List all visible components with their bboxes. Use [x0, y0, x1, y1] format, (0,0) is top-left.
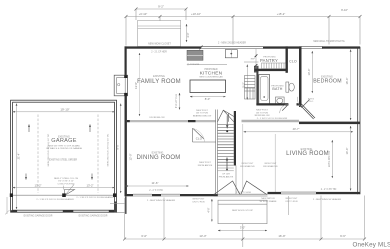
dimension 4'-0" right of bay	[186, 24, 188, 42]
svg-text:EXTG WD FLR: EXTG WD FLR	[328, 151, 331, 168]
garage interior dim 19'-10"	[13, 111, 115, 113]
stairs	[216, 110, 236, 195]
svg-text:UP 14R: UP 14R	[222, 174, 230, 176]
svg-text:PANTRY: PANTRY	[260, 58, 278, 63]
garage right wall lower dark segment	[114, 202, 117, 213]
wall: right exterior	[358, 47, 360, 194]
svg-text:EXISTING: EXISTING	[153, 75, 165, 78]
dim 40'-7" below divider	[244, 131, 354, 133]
svg-text:21'-4": 21'-4"	[16, 153, 20, 160]
door jamb posts	[214, 194, 218, 196]
svg-text:2 - 2' X 3' HD: 2 - 2' X 3' HD	[149, 190, 163, 192]
dim 16'-4" bedroom height	[350, 50, 352, 121]
pantry depth dim	[255, 49, 257, 71]
svg-text:EXISTING GARAGE DOOR: EXISTING GARAGE DOOR	[79, 214, 108, 217]
entry door header	[214, 194, 268, 196]
svg-text:3R/3W BELOW: 3R/3W BELOW	[254, 115, 270, 117]
kitchen dim 5'-2"	[246, 65, 248, 100]
svg-text:CLO: CLO	[196, 136, 203, 140]
bedroom dim 10'-4"	[311, 51, 313, 93]
svg-text:2 - 1 3/4 X 9 1/4 LVL FLUSH HE: 2 - 1 3/4 X 9 1/4 LVL FLUSH HEADER	[36, 198, 74, 201]
svg-text:NEW POST: NEW POST	[286, 198, 298, 200]
svg-text:NEW 4" STEEL COL ON: NEW 4" STEEL COL ON	[54, 178, 78, 180]
svg-text:NEW POST: NEW POST	[242, 163, 254, 165]
svg-text:4'-0": 4'-0"	[206, 207, 210, 212]
svg-text:+15'-2": +15'-2"	[277, 12, 285, 16]
svg-text:LIVING ROOM: LIVING ROOM	[286, 151, 329, 157]
svg-text:19'-10": 19'-10"	[60, 107, 69, 111]
bottom dimension line	[123, 196, 366, 248]
svg-text:CONC FOOTING: CONC FOOTING	[57, 183, 74, 185]
svg-text:DN TO FDN: DN TO FDN	[193, 201, 205, 203]
fireplace	[114, 75, 127, 96]
svg-text:40'-7": 40'-7"	[293, 127, 300, 131]
wall: bedroom left	[299, 46, 302, 107]
svg-text:10'-4": 10'-4"	[307, 69, 311, 76]
lower risers	[218, 168, 234, 171]
angled hall wall	[300, 104, 315, 119]
entry double door swings	[214, 181, 267, 195]
svg-text:13'-6": 13'-6"	[134, 82, 138, 89]
dimension line 9'-2" (top)	[135, 8, 188, 21]
svg-text:FROM ABOVE: FROM ABOVE	[219, 175, 234, 178]
svg-text:2 - NEW WINDOW HEADER: 2 - NEW WINDOW HEADER	[313, 198, 342, 201]
svg-text:2 - 1 3/4 X 14 LVL FLUSH HDR: 2 - 1 3/4 X 14 LVL FLUSH HDR	[257, 118, 288, 120]
svg-text:13'-3": 13'-3"	[199, 234, 206, 238]
dim 9'-0" between garage and house wall	[120, 104, 122, 194]
svg-text:FAMILY ROOM: FAMILY ROOM	[137, 79, 181, 85]
svg-text:DN 3R BELOW: DN 3R BELOW	[149, 117, 165, 119]
svg-text:11'-6": 11'-6"	[152, 181, 159, 185]
svg-text:12'-0": 12'-0"	[129, 154, 133, 161]
left exterior tick	[5, 197, 10, 215]
garage interior height dim	[16, 104, 18, 210]
svg-text:BEDROOM: BEDROOM	[313, 79, 342, 85]
kitchen sink	[225, 50, 237, 58]
wall: left exterior below fireplace down to dining front	[125, 96, 127, 196]
wall: top exterior (family room to bedroom)	[125, 46, 361, 50]
stoop	[218, 200, 267, 224]
wall: clo left	[286, 46, 288, 72]
stair treads	[218, 125, 234, 166]
svg-text:EXISTING STEEL GIRDER: EXISTING STEEL GIRDER	[49, 159, 77, 161]
closet by stairs	[193, 128, 216, 142]
svg-text:16'-4": 16'-4"	[345, 78, 349, 85]
stair right wall	[234, 111, 236, 166]
kitchen range cabinet	[187, 50, 203, 60]
wall: living room front	[268, 192, 361, 194]
svg-text:DINING ROOM: DINING ROOM	[136, 155, 180, 161]
island dim 8'-0"	[190, 96, 226, 98]
svg-text:4'-0": 4'-0"	[186, 32, 190, 37]
svg-text:9'-10": 9'-10"	[341, 8, 348, 12]
stair winders	[218, 110, 234, 122]
header: hall/living (2-1 3/4x14 LVL)	[242, 120, 300, 122]
wall: bath left	[256, 71, 258, 105]
bath sink	[276, 97, 285, 105]
wall: dining front	[125, 194, 214, 196]
svg-text:14'-4": 14'-4"	[345, 148, 349, 155]
svg-text:2 - NEW 2X10 GI HEADER: 2 - NEW 2X10 GI HEADER	[218, 42, 246, 45]
svg-text:DN TO FDN: DN TO FDN	[286, 201, 298, 203]
small cab block	[254, 66, 259, 73]
svg-text:NEW WOOD STOOP: NEW WOOD STOOP	[232, 210, 254, 212]
svg-text:BATH: BATH	[272, 87, 282, 91]
stair top DN arrow	[226, 116, 228, 129]
garage door wall piers	[11, 210, 18, 212]
garage dim 13'-2"/13'-2"	[13, 187, 115, 189]
svg-text:9'-2": 9'-2"	[158, 5, 164, 9]
svg-text:2 - 2' X 3'6" HD: 2 - 2' X 3'6" HD	[321, 189, 337, 191]
joist arrows	[26, 125, 92, 180]
pantry shelving	[262, 63, 287, 69]
svg-text:3'6" X 3'6" X 12": 3'6" X 3'6" X 12"	[58, 181, 74, 183]
garage flush header line	[13, 194, 115, 196]
svg-text:NEW COUNTERS/CAB: NEW COUNTERS/CAB	[199, 75, 223, 78]
svg-text:DN TO FDN: DN TO FDN	[196, 113, 208, 115]
svg-text:NEW POST: NEW POST	[193, 199, 205, 201]
wall: bedroom/living divider	[299, 122, 360, 125]
kitchen appliance boxes (range/dw)	[245, 76, 256, 100]
svg-text:NEW POST: NEW POST	[196, 110, 208, 112]
svg-text:GARAGE: GARAGE	[51, 138, 76, 144]
garage ceiling joist lines	[38, 115, 98, 194]
stoop dim 3'-0"	[218, 230, 267, 232]
dining dim 11'-6"	[126, 185, 189, 187]
svg-text:CLO: CLO	[289, 59, 297, 63]
svg-text:CLO: CLO	[309, 101, 314, 103]
svg-text:NEW PAT DR: NEW PAT DR	[261, 197, 275, 200]
bath toilet	[286, 82, 294, 92]
wall: pantry bottom	[255, 69, 288, 71]
svg-text:9'-0 1/2" CLG: 9'-0 1/2" CLG	[175, 94, 178, 108]
svg-text:NEW POST: NEW POST	[256, 110, 268, 112]
kitchen counter edge	[187, 64, 227, 66]
svg-text:NEW 5/8 TYPE 'X' GYP. BOARD: NEW 5/8 TYPE 'X' GYP. BOARD	[48, 144, 80, 147]
family room width dim 13'-6"	[139, 53, 141, 116]
svg-text:2 - NEW WINDOW HEADER: 2 - NEW WINDOW HEADER	[147, 199, 176, 202]
stair left wall	[216, 110, 218, 195]
bath door arc	[280, 104, 289, 113]
svg-text:8'-0": 8'-0"	[205, 97, 211, 101]
wall: family room left exterior	[125, 46, 127, 75]
wall: bath bottom	[256, 103, 288, 105]
svg-text:13'-2": 13'-2"	[86, 183, 93, 187]
living room interior post line	[274, 134, 276, 192]
bath tub	[259, 75, 270, 105]
svg-text:NEW WALL TO MATCH EXTG: NEW WALL TO MATCH EXTG	[313, 40, 345, 43]
header line: family room / dining opening	[127, 120, 216, 121]
svg-text:DN TO FDN: DN TO FDN	[256, 112, 268, 114]
family room clg dim	[179, 93, 181, 110]
counter by pantry	[244, 61, 259, 63]
svg-text:FROM ABOVE: FROM ABOVE	[240, 165, 255, 168]
svg-text:+6'-10": +6'-10"	[139, 12, 147, 16]
svg-text:16'-9": 16'-9"	[278, 234, 285, 238]
svg-text:3'-0": 3'-0"	[240, 226, 245, 230]
bedroom door leaf + arc	[298, 97, 302, 108]
kitchen island	[190, 80, 226, 93]
svg-text:BEARING BELOW: BEARING BELOW	[193, 114, 212, 117]
svg-text:EXISTING GARAGE DOOR: EXISTING GARAGE DOOR	[24, 214, 53, 217]
dim 14'-4" living height	[350, 126, 352, 191]
svg-text:9'-0": 9'-0"	[115, 144, 119, 149]
dimension line overall top (+6'-10" / +10'-10" / +15'-2" / 9'-10")	[125, 15, 362, 46]
svg-text:NEW POST: NEW POST	[265, 163, 277, 165]
svg-text:FROM ABOVE: FROM ABOVE	[263, 165, 278, 168]
svg-text:+10'-10": +10'-10"	[191, 12, 201, 16]
entry side wall below dining	[125, 196, 127, 214]
svg-text:OneKey MLS: OneKey MLS	[353, 241, 390, 248]
living room dim	[331, 140, 333, 178]
stoop height dim 4'-0"	[211, 199, 213, 222]
svg-text:9'-6": 9'-6"	[340, 234, 346, 238]
svg-text:NEW 2X10 CLG JSTS @ 16" OC: NEW 2X10 CLG JSTS @ 16" OC	[108, 133, 110, 166]
svg-text:NEW POST: NEW POST	[199, 162, 211, 164]
stair direction arrow	[226, 158, 228, 170]
svg-text:5'-2": 5'-2"	[242, 82, 246, 87]
svg-text:FROM ABOVE: FROM ABOVE	[198, 164, 213, 167]
threshold line garage to entry	[110, 202, 126, 204]
svg-text:6'-0": 6'-0"	[141, 234, 147, 238]
svg-text:NEW WDW CLOSET: NEW WDW CLOSET	[148, 43, 171, 46]
svg-text:2 - 1 3/4 X 9 1/4 LVL FLUSH HE: 2 - 1 3/4 X 9 1/4 LVL FLUSH HEADER	[76, 196, 114, 199]
svg-text:2 - 2'L CF HDR: 2 - 2'L CF HDR	[151, 51, 167, 53]
bay window box above family room	[138, 20, 181, 46]
garage outer walls	[11, 100, 117, 212]
svg-text:13'-2": 13'-2"	[34, 183, 41, 187]
svg-text:ON WALLS & CEILING OF GARAGE: ON WALLS & CEILING OF GARAGE	[46, 147, 83, 150]
